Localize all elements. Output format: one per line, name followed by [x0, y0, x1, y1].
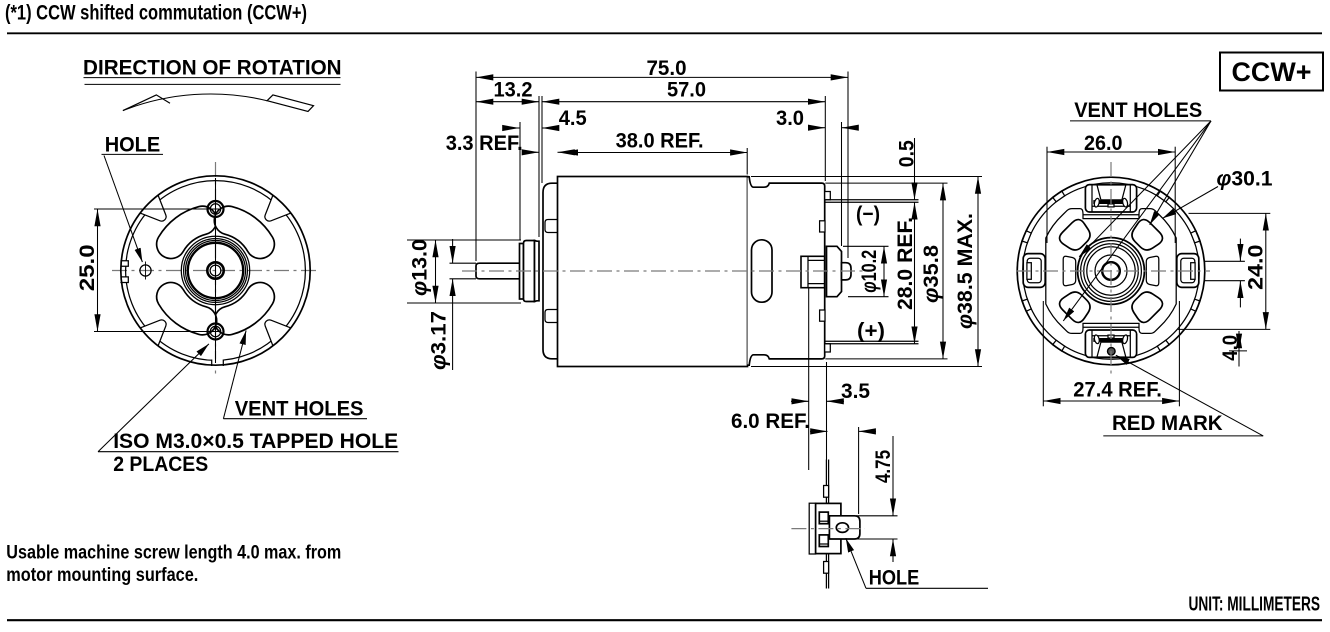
svg-text:ISO M3.0×0.5 TAPPED HOLE: ISO M3.0×0.5 TAPPED HOLE: [113, 429, 398, 453]
terminal root lower: [825, 344, 831, 352]
svg-text:75.0: 75.0: [647, 56, 687, 80]
13.2 dimension: [538, 96, 540, 237]
svg-text:UNIT: MILLIMETERS: UNIT: MILLIMETERS: [1189, 594, 1321, 616]
left rim notch upper: [118, 261, 129, 267]
terminal tab: [829, 516, 860, 539]
bottom tapped hole: [208, 324, 224, 340]
rim tab at 158 deg: [1022, 299, 1031, 311]
38.0 REF. dimension: [746, 148, 748, 175]
block hole lower: [819, 535, 828, 547]
svg-text:57.0: 57.0: [667, 78, 706, 102]
svg-text:4.5: 4.5: [559, 106, 587, 130]
rim tab at 22 deg: [1191, 299, 1200, 311]
terminal bar upper: [826, 199, 919, 201]
left view crosshair vertical centerline: [215, 162, 217, 378]
svg-text:3.5: 3.5: [841, 379, 870, 403]
red mark leader: [1116, 355, 1263, 436]
phi38.5 MAX. dimension: [751, 176, 982, 178]
svg-text:26.0: 26.0: [1084, 131, 1123, 155]
bottom rim notch: [212, 359, 224, 366]
27.4 REF. dimension: [1042, 301, 1044, 406]
svg-text:(*1) CCW shifted commutation (: (*1) CCW shifted commutation (CCW+): [5, 2, 307, 25]
vent hole lower-right: [1132, 292, 1162, 322]
bottom box end ovals: [1094, 334, 1101, 344]
top box trapezoid: [1097, 185, 1126, 200]
svg-text:(+): (+): [857, 319, 885, 343]
top brush box: [1085, 185, 1136, 212]
rotation arrow tail (parallelogram): [267, 95, 313, 112]
top tapped hole: [208, 201, 224, 217]
endcap clip lower: [820, 310, 825, 321]
svg-text:(−): (−): [856, 202, 880, 226]
endbell crimp tab lower: [545, 310, 558, 323]
left view crosshair horizontal centerline: [112, 270, 318, 272]
phi3.17 dimension (outside arrows): [450, 262, 477, 264]
phi13.0 dimension: [407, 239, 521, 241]
endcap clip upper: [820, 221, 825, 232]
vertical center solid line through holes: [215, 178, 217, 363]
svg-text:2 PLACES: 2 PLACES: [113, 452, 208, 476]
svg-text:DIRECTION OF ROTATION: DIRECTION OF ROTATION: [83, 55, 342, 79]
phi10.2 dimension: [843, 245, 889, 247]
bottom box trapezoid: [1097, 342, 1126, 357]
hub rings: [1078, 238, 1145, 305]
side slot left: [1063, 256, 1076, 285]
rotation arrow head (open): [123, 95, 170, 111]
vent holes leaders: [1150, 121, 1211, 225]
bearing boss washer left: [520, 244, 524, 300]
right view horizontal centerline: [1016, 270, 1210, 272]
HOLE leader (detail): [846, 538, 866, 588]
phi35.8 dimension: [825, 182, 947, 184]
endcap vent slot (stadium): [752, 240, 773, 302]
HOLE leader: [104, 156, 142, 263]
boss circle bold: [188, 243, 243, 298]
rear bearing hub disc: [827, 246, 842, 296]
svg-text:6.0 REF.: 6.0 REF.: [731, 409, 810, 433]
svg-text:motor mounting surface.: motor mounting surface.: [6, 564, 198, 586]
rim tab at 305 deg: [1157, 191, 1169, 202]
rear outer circle: [1017, 177, 1205, 365]
svg-text:φ38.5 MAX.: φ38.5 MAX.: [953, 213, 977, 329]
vent hole lower-left: [1060, 292, 1090, 322]
svg-text:VENT HOLES: VENT HOLES: [235, 396, 364, 420]
terminal bar lower: [826, 340, 919, 342]
title rule: [7, 32, 1322, 34]
svg-text:HOLE: HOLE: [869, 566, 920, 590]
right mounting clip: [1177, 254, 1199, 288]
svg-text:φ10.2: φ10.2: [857, 250, 881, 293]
vent hole upper-left: [1060, 220, 1090, 250]
4.0 dimension: [1229, 350, 1247, 352]
terminal root upper: [825, 192, 831, 200]
clip window dimension (outside arrows): [1205, 260, 1245, 262]
svg-text:27.4 REF.: 27.4 REF.: [1073, 377, 1162, 401]
block hole upper: [819, 512, 828, 524]
vent hole upper-right: [1132, 220, 1162, 250]
bottom box bar: [1093, 338, 1127, 342]
bearing boss body: [524, 241, 535, 302]
rim tab at 125 deg: [1053, 340, 1065, 351]
svg-text:φ35.8: φ35.8: [919, 245, 943, 303]
svg-text:Usable machine screw length 4.: Usable machine screw length 4.0 max. fro…: [6, 541, 341, 563]
rim tab at 235 deg: [1053, 191, 1065, 202]
top box center tab: [1108, 204, 1114, 207]
boss circle outer: [181, 236, 249, 304]
bottom box center tab: [1108, 335, 1114, 338]
top box end ovals: [1094, 198, 1101, 208]
rim tab at 338 deg: [1191, 231, 1200, 243]
rotation arrow arc: [123, 94, 267, 111]
face clip lower: [824, 562, 829, 574]
rim tab at 55 deg: [1157, 340, 1169, 351]
svg-text:38.0 REF.: 38.0 REF.: [616, 128, 704, 152]
center view horizontal centerline: [462, 270, 872, 272]
svg-text:4.75: 4.75: [871, 450, 895, 483]
side slot right: [1146, 256, 1159, 285]
26.0 dimension: [1046, 147, 1048, 243]
rear hub cap: [842, 263, 852, 280]
endbell crimp tab upper: [545, 220, 558, 233]
svg-text:CCW+: CCW+: [1232, 57, 1312, 87]
svg-text:RED MARK: RED MARK: [1112, 411, 1223, 435]
left mounting clip: [1023, 254, 1045, 288]
svg-text:φ30.1: φ30.1: [1217, 166, 1273, 190]
svg-text:25.0: 25.0: [75, 244, 99, 291]
svg-text:VENT HOLES: VENT HOLES: [1074, 98, 1202, 122]
shaft end: [1102, 262, 1120, 280]
direction label double underline: [84, 77, 341, 79]
25.0 extension lines: [94, 208, 219, 210]
terminal block: [816, 503, 841, 553]
phi30.1 leader: [1162, 187, 1218, 219]
left small hole: [140, 265, 151, 276]
75.0 dimension: [475, 72, 477, 262]
svg-text:0.5: 0.5: [895, 140, 919, 167]
0.5 dimension: [914, 138, 916, 200]
red mark: [1108, 348, 1116, 356]
rim tab at 202 deg: [1022, 231, 1031, 243]
mounting face edge line: [825, 460, 827, 589]
crimp tab wedge 10:30: [141, 196, 167, 222]
57.0 dimension: [541, 96, 543, 183]
endcap neck and shell: [748, 177, 825, 365]
detail centerline: [791, 528, 865, 530]
left rim notch lower: [118, 277, 129, 283]
VENT HOLES leader: [223, 331, 246, 419]
3.5 dimension (outside arrows): [808, 289, 810, 471]
motor can body: [558, 177, 748, 367]
svg-text:13.2: 13.2: [494, 78, 533, 102]
6.0 REF. dimension (outside arrows): [858, 427, 860, 514]
svg-text:3.3 REF.: 3.3 REF.: [446, 131, 523, 155]
left view inner rim circle: [126, 181, 306, 361]
CCW+ box: [1220, 53, 1323, 91]
brush card edge: [809, 503, 815, 554]
3.0 dimension (outside arrows): [841, 122, 843, 246]
top box bar: [1093, 200, 1127, 204]
vent slot lower-left: [157, 282, 217, 334]
front endbell: [543, 183, 558, 359]
28.0 REF. dimension: [914, 202, 916, 343]
rear inner rim circle: [1023, 183, 1200, 360]
right view vertical centerline: [1110, 162, 1112, 377]
24.0 dimension: [1189, 212, 1271, 214]
vent slot lower-right: [214, 282, 274, 334]
terminal hole: [836, 523, 848, 533]
vent slot upper-right: [214, 206, 274, 258]
shaft: [476, 263, 521, 279]
4.75 dimension (outside arrows): [856, 515, 898, 517]
svg-text:φ3.17: φ3.17: [427, 311, 451, 370]
crimp tab wedge 4:30: [265, 320, 291, 346]
svg-text:24.0: 24.0: [1244, 245, 1268, 291]
svg-text:φ13.0: φ13.0: [408, 239, 432, 296]
crimp tab wedge 7:30: [141, 320, 167, 346]
4.5 dimension (outside arrows): [519, 122, 521, 240]
shaft circle: [207, 262, 223, 278]
rear brush holder bracket: [801, 256, 825, 287]
vent slot upper-left: [157, 206, 217, 258]
ISO leader to bottom tapped hole: [98, 344, 209, 452]
svg-text:28.0 REF.: 28.0 REF.: [893, 217, 917, 310]
3.3 REF. dimension (outside arrows): [524, 151, 540, 153]
face clip upper: [824, 486, 829, 498]
crimp tab wedge 1:30: [265, 196, 291, 222]
bottom brush box: [1085, 330, 1136, 357]
bottom rule: [7, 619, 1322, 621]
svg-text:3.0: 3.0: [776, 106, 804, 130]
bell contour: [1046, 209, 1176, 334]
svg-text:HOLE: HOLE: [105, 133, 161, 157]
25.0 dimension line: [97, 209, 99, 332]
left view outer circle (can rim, dia 38.5): [121, 176, 310, 365]
svg-text:4.0: 4.0: [1218, 335, 1242, 361]
